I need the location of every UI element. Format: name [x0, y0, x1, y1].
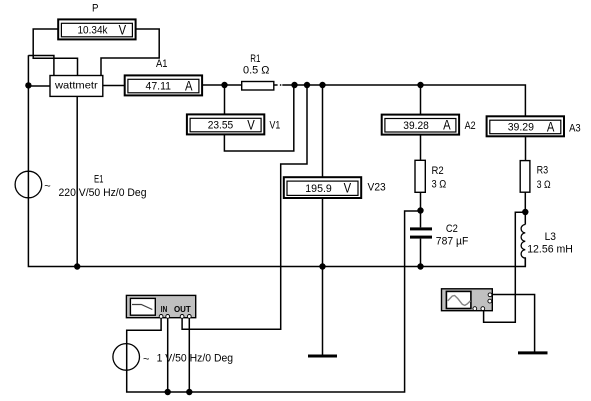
svg-text:3 Ω: 3 Ω — [537, 179, 551, 191]
svg-text:A: A — [185, 78, 193, 93]
svg-text:wattmetr: wattmetr — [54, 80, 98, 92]
wire: A2 bottom to R2 — [420, 135, 422, 160]
node: dot A2 branch — [417, 82, 423, 88]
svg-text:A: A — [443, 118, 451, 133]
AC source E1 — [15, 171, 42, 198]
svg-text:39.29: 39.29 — [508, 122, 534, 134]
node: dot2 — [291, 82, 297, 88]
wire C: P meter right to wattmeter T3 — [101, 29, 159, 76]
svg-text:787 µF: 787 µF — [436, 236, 469, 248]
wire W1: R3/L3 node to scope bottom terminal — [484, 212, 526, 322]
meter A2 — [382, 115, 459, 135]
svg-text:V23: V23 — [368, 182, 386, 194]
meter P — [58, 19, 135, 39]
svg-text:1 V/50 Hz/0 Deg: 1 V/50 Hz/0 Deg — [157, 353, 234, 365]
wire: small dash after R1 — [280, 84, 281, 86]
Bode plotter — [126, 295, 195, 318]
wire: dot4 down to V23 top — [322, 85, 324, 177]
node: dot IN- on bottom rail — [165, 389, 171, 395]
svg-text:L3: L3 — [545, 231, 556, 243]
node: dot OUT- on bottom rail — [186, 389, 192, 395]
wire left bus E1 vertical and bottom bus — [28, 55, 525, 266]
node: dot1 after A1 — [221, 82, 227, 88]
wire B: P meter left to wattmeter T2 — [33, 29, 77, 76]
node: dot R3/L3 — [522, 209, 528, 215]
ground right — [518, 351, 548, 354]
node: dot3 — [304, 82, 310, 88]
svg-text:V: V — [119, 22, 127, 37]
svg-text:E1: E1 — [94, 174, 104, 186]
svg-text:~: ~ — [44, 181, 50, 193]
wire: scope right terminal to right ground — [492, 295, 534, 352]
svg-text:A3: A3 — [569, 123, 581, 135]
inductor L3 — [521, 225, 525, 259]
AC source E2 — [113, 344, 140, 371]
wire: C2 leads — [420, 211, 422, 267]
svg-text:~: ~ — [143, 353, 149, 365]
wire: wattmeter right to A1 — [103, 85, 125, 87]
meter A3 — [487, 116, 564, 136]
svg-text:P: P — [92, 3, 99, 15]
svg-text:V: V — [247, 117, 255, 132]
wire: dot3 down to Bode plotter OUT+ — [182, 85, 307, 329]
wire: R3 bottom to node — [524, 192, 526, 212]
meter V1 — [187, 114, 264, 134]
node: dot wattmeter bottom on bus — [74, 263, 80, 269]
svg-text:10.34k: 10.34k — [78, 25, 108, 37]
wire: Bode IN- down to bottom rail — [167, 318, 169, 392]
svg-text:R1: R1 — [250, 53, 260, 65]
svg-text:R3: R3 — [537, 165, 549, 177]
wire: Bode OUT- down to bottom rail — [188, 318, 190, 392]
svg-text:0.5 Ω: 0.5 Ω — [243, 65, 269, 77]
svg-text:V: V — [344, 181, 352, 196]
svg-text:12.56 mH: 12.56 mH — [527, 243, 573, 255]
wire: C2 node jog left, down, bottom rail to E2 — [127, 211, 421, 392]
meter V23 — [284, 177, 361, 198]
meter A1 — [125, 75, 202, 95]
svg-text:R2: R2 — [432, 165, 444, 177]
node: dot V23/ground on bus — [319, 263, 325, 269]
wire: V23 bottom to bus and ground — [322, 198, 324, 355]
svg-text:C2: C2 — [446, 223, 458, 235]
svg-text:47.11: 47.11 — [146, 81, 172, 93]
svg-text:A: A — [547, 119, 555, 134]
resistor R1 — [242, 82, 274, 91]
resistor R2 — [415, 160, 425, 192]
wire: junction to wattmeter left — [28, 85, 50, 87]
wire: branch down to A2 — [420, 85, 422, 115]
wire: L3 bottom stub — [524, 258, 526, 266]
wire: A1 right to node — [202, 84, 241, 86]
svg-text:220 V/50 Hz/0 Deg: 220 V/50 Hz/0 Deg — [59, 187, 147, 199]
svg-text:OUT: OUT — [174, 304, 192, 314]
svg-text:195.9: 195.9 — [305, 183, 332, 195]
node: dot R2/C2 — [417, 207, 423, 213]
svg-text:39.28: 39.28 — [403, 120, 429, 132]
node: dot C2 bottom on bus — [417, 263, 423, 269]
wire: dot2 down around to V1 bottom — [224, 85, 293, 151]
oscilloscope — [442, 289, 493, 311]
wattmeter subcircuit — [50, 76, 103, 97]
node: dot4 — [319, 82, 325, 88]
ground middle — [308, 355, 337, 358]
svg-text:A1: A1 — [156, 58, 168, 70]
wire: A3 bottom to R3 — [525, 137, 527, 161]
wire: R2 bottom to node — [420, 192, 422, 210]
wire: L3 top lead — [524, 212, 526, 225]
wire: wattmeter bottom to bus — [76, 96, 78, 266]
svg-text:A2: A2 — [465, 120, 476, 132]
svg-text:23.55: 23.55 — [208, 120, 234, 132]
wire: top bus to A3 — [282, 85, 525, 117]
svg-text:IN: IN — [161, 304, 167, 314]
wire: R1 right stub — [274, 84, 278, 86]
svg-text:3 Ω: 3 Ω — [432, 179, 447, 191]
resistor R3 — [520, 161, 530, 193]
svg-text:V1: V1 — [270, 120, 281, 132]
wire A: left bus top to wattmeter T1 — [28, 56, 54, 76]
node: dot on left bus — [25, 82, 31, 88]
wire: dot1 down to V1 top — [224, 85, 226, 115]
capacitor C2 — [410, 227, 432, 238]
